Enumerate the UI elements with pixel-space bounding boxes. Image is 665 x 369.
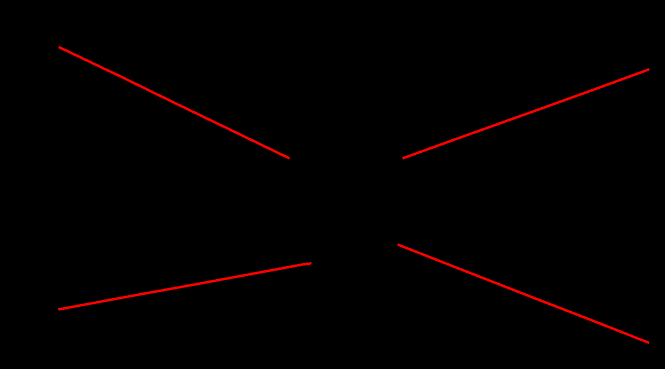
red ray, upper-right xyxy=(403,69,650,158)
red ray, lower-right xyxy=(398,245,649,343)
red ray, lower-left xyxy=(58,263,311,309)
red ray, upper-left xyxy=(59,47,290,158)
